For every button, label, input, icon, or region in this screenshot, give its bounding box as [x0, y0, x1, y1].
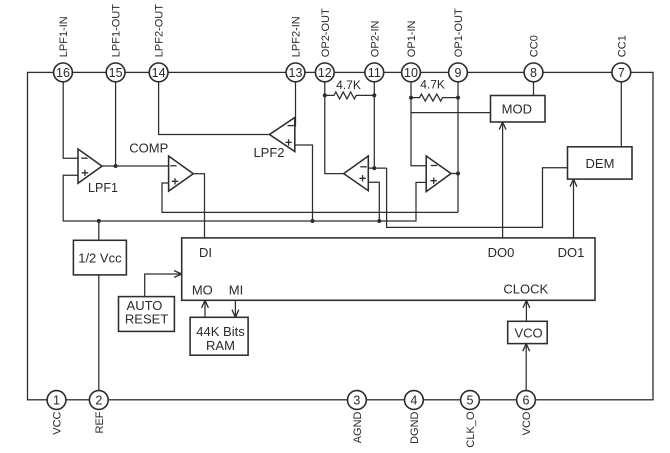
wire pin11 to OP2 inverting node	[373, 82, 375, 168]
wire pin12 vertical to OP2 output	[325, 82, 344, 174]
block digital logic	[182, 238, 595, 300]
svg-text:DO1: DO1	[558, 245, 585, 260]
wire OP2 inverting input segment	[368, 167, 386, 169]
svg-text:7: 7	[618, 66, 625, 80]
wire OP1 output stub	[451, 173, 458, 175]
svg-text:LPF2-OUT: LPF2-OUT	[154, 4, 166, 57]
svg-text:LPF1-IN: LPF1-IN	[58, 16, 70, 57]
pin 8 CC0	[524, 35, 543, 82]
wire pin14 to LPF2 output	[159, 82, 270, 135]
op-amp OP2	[344, 156, 369, 191]
wire OP1 non-inverting input to REF rail end	[416, 182, 426, 220]
wire MI logic block to RAM with arrow	[232, 300, 239, 317]
wire DEM output feedback to OP2	[387, 168, 568, 228]
svg-text:VCO: VCO	[515, 326, 543, 341]
pin 7 CC1	[612, 35, 631, 82]
svg-text:10: 10	[404, 66, 418, 80]
svg-text:MO: MO	[192, 282, 213, 297]
svg-text:1: 1	[53, 393, 60, 407]
wire pin13 to LPF2 inverting input	[295, 82, 297, 127]
svg-text:DEM: DEM	[586, 156, 615, 171]
pin 5 CLK_O	[461, 391, 480, 448]
wire pin15 to LPF1 output node	[115, 82, 117, 166]
wire LPF1 output to COMP inverting input	[102, 165, 169, 167]
wire pin10 to OP1 inverting input	[411, 82, 426, 166]
svg-text:MOD: MOD	[502, 102, 532, 117]
node junction dot OP2 plus on REF rail	[377, 219, 381, 223]
svg-text:3: 3	[353, 393, 360, 407]
wire REF rail	[63, 175, 416, 221]
svg-text:6: 6	[523, 393, 530, 407]
block DEM	[568, 147, 633, 179]
pin 14 LPF2-OUT	[149, 4, 168, 82]
svg-text:15: 15	[109, 66, 123, 80]
op-amp LPF1	[78, 149, 118, 195]
svg-text:LPF2-IN: LPF2-IN	[291, 16, 303, 57]
svg-text:OP2-IN: OP2-IN	[369, 20, 381, 57]
resistor R1 4.7K	[325, 92, 375, 99]
pin 11 OP2-IN	[365, 20, 384, 81]
value label R1 4.7K	[336, 78, 361, 92]
node junction dot resistor R1 right	[372, 93, 376, 97]
pin 12 OP2-OUT	[315, 8, 334, 82]
wire COMP output to DI	[193, 174, 204, 238]
wire pin7 to DEM	[620, 82, 622, 147]
pin 15 LPF1-OUT	[106, 4, 125, 82]
pin 13 LPF2-IN	[286, 16, 305, 82]
node junction dot LPF2 plus on REF rail	[311, 219, 315, 223]
svg-text:4.7K: 4.7K	[336, 78, 361, 92]
block AUTO RESET	[119, 297, 175, 332]
svg-text:REF: REF	[94, 411, 106, 433]
svg-text:OP1-OUT: OP1-OUT	[453, 8, 465, 57]
svg-text:DGND: DGND	[409, 411, 421, 443]
svg-text:AGND: AGND	[352, 411, 364, 443]
svg-text:OP1-IN: OP1-IN	[406, 20, 418, 57]
node junction dot resistor R1 left	[323, 93, 327, 97]
block 1/2 Vcc	[73, 240, 126, 275]
svg-text:CLK_O: CLK_O	[465, 411, 477, 448]
value label R2 4.7K	[420, 78, 445, 92]
svg-text:DI: DI	[199, 245, 212, 260]
svg-text:14: 14	[152, 66, 166, 80]
svg-text:8: 8	[530, 66, 537, 80]
pin 9 OP1-OUT	[449, 8, 468, 82]
node junction dot resistor R2 left	[409, 96, 413, 100]
node junction dot OP2 inverting input	[372, 166, 376, 170]
svg-text:12: 12	[318, 66, 332, 80]
op-amp OP1	[426, 156, 451, 192]
svg-text:DO0: DO0	[488, 245, 515, 260]
wire REF pin2 to half-Vcc block	[98, 275, 100, 391]
block MOD	[491, 96, 546, 123]
svg-text:13: 13	[289, 66, 303, 80]
wire MO RAM to logic block with arrow	[202, 300, 209, 317]
svg-text:44K Bits: 44K Bits	[196, 324, 245, 339]
svg-text:9: 9	[455, 66, 462, 80]
IC outline box	[28, 72, 654, 399]
svg-text:4.7K: 4.7K	[420, 78, 445, 92]
resistor R2 4.7K	[411, 94, 458, 101]
pin 1 VCC	[47, 391, 66, 435]
node junction dot REF on rail	[97, 219, 101, 223]
svg-text:1/2 Vcc: 1/2 Vcc	[78, 250, 122, 265]
wire half-Vcc block to REF rail	[98, 221, 100, 240]
op-amp COMP	[129, 140, 193, 191]
wire OP2 non-inverting input to REF rail	[368, 182, 379, 221]
svg-text:MI: MI	[229, 282, 243, 297]
svg-text:CC1: CC1	[616, 35, 628, 57]
svg-text:5: 5	[467, 393, 474, 407]
wire LPF2 non-inverting input to REF rail	[295, 145, 313, 221]
block 44K Bits RAM	[190, 317, 248, 355]
wire pin6 to VCO block with arrow	[523, 344, 530, 391]
wire DO0 to MOD with arrow	[499, 122, 506, 238]
wire pin16 to LPF1 inverting input	[63, 82, 78, 158]
svg-text:16: 16	[56, 66, 70, 80]
pin 16 LPF1-IN	[54, 16, 73, 82]
pin 6 VCO	[517, 391, 536, 436]
svg-text:CLOCK: CLOCK	[503, 282, 548, 297]
pin 10 OP1-IN	[402, 20, 421, 81]
wire OP1 input node to MOD input	[411, 112, 491, 114]
svg-text:RAM: RAM	[206, 338, 235, 353]
wire pin8 to MOD	[533, 82, 535, 96]
node junction dot pin15/LPF1-out	[114, 164, 118, 168]
svg-text:OP2-OUT: OP2-OUT	[320, 8, 332, 57]
wire pin9 vertical OP1 output	[457, 82, 459, 213]
wire AUTO RESET to logic block with arrow	[145, 271, 182, 297]
pin 3 AGND	[348, 391, 367, 444]
pin 4 DGND	[405, 391, 424, 444]
wire COMP feedback rail from OP1 output	[162, 183, 458, 212]
svg-text:LPF1-OUT: LPF1-OUT	[111, 4, 123, 57]
node junction dot OP1 output	[456, 172, 460, 176]
wire VCO block to CLOCK with arrow	[523, 300, 530, 321]
svg-text:CC0: CC0	[529, 35, 541, 57]
svg-text:4: 4	[410, 393, 417, 407]
block VCO	[508, 321, 548, 343]
node junction dot resistor R2 right	[456, 96, 460, 100]
svg-text:LPF1: LPF1	[88, 181, 118, 195]
pin 2 REF	[89, 391, 108, 434]
wire DO1 to DEM with arrow	[570, 179, 577, 238]
svg-text:VCC: VCC	[52, 411, 64, 434]
svg-text:LPF2: LPF2	[253, 145, 284, 160]
svg-text:COMP: COMP	[129, 140, 168, 155]
svg-text:RESET: RESET	[125, 312, 168, 327]
svg-text:VCO: VCO	[521, 411, 533, 435]
svg-text:2: 2	[95, 393, 102, 407]
op-amp LPF2	[253, 118, 294, 161]
svg-text:11: 11	[368, 66, 381, 80]
